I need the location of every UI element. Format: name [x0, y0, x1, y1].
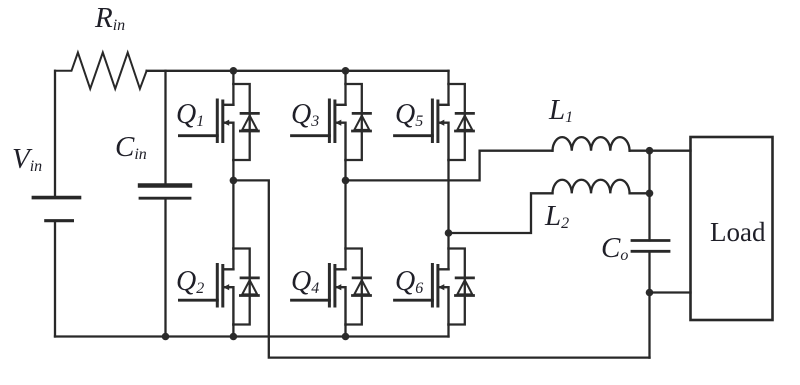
- wire leg1 bottom: [232, 325, 234, 337]
- capacitor Co bottom plate: [632, 250, 669, 253]
- inductor L1: [553, 137, 630, 151]
- wire Q1 gate lead: [179, 134, 217, 137]
- node leg2 top: [342, 67, 350, 75]
- wire leg3 middle: [447, 160, 449, 249]
- load box: [691, 137, 773, 320]
- resistor Rin: [55, 53, 147, 89]
- wire Cin top: [164, 71, 166, 184]
- wire phase2 to L1: [346, 151, 553, 181]
- capacitor Co top plate: [632, 239, 669, 242]
- wire Q5 gate lead: [395, 134, 433, 137]
- wire leg3 drain: [447, 71, 449, 84]
- wire Q4 gate lead: [292, 299, 330, 302]
- transistor Q5: [432, 84, 473, 160]
- junction leg2 bottom: [342, 333, 350, 341]
- node leg1 top: [230, 67, 238, 75]
- transistor Q2: [217, 249, 258, 325]
- wire Cin bottom: [164, 198, 166, 336]
- wire phase1 to load return: [233, 180, 649, 357]
- svg-text:Load: Load: [710, 217, 766, 247]
- transistor Q4: [329, 249, 370, 325]
- node leg1 phase: [230, 177, 238, 185]
- wire L1 to load: [630, 150, 691, 152]
- wire output node vertical: [648, 151, 650, 241]
- transistor Q3: [329, 84, 370, 160]
- battery Vin positive plate: [33, 196, 79, 200]
- wire Co bottom: [648, 251, 650, 357]
- node leg3 phase: [445, 229, 453, 237]
- wire left branch (Vin top): [54, 71, 56, 196]
- wire output bottom to load: [650, 291, 691, 293]
- inductor L2: [553, 180, 630, 194]
- capacitor Cin bottom plate: [140, 197, 190, 200]
- junction output bottom: [646, 289, 654, 297]
- transistor Q6: [432, 249, 473, 325]
- wire Q6 gate lead: [395, 299, 433, 302]
- transistor Q1: [217, 84, 258, 160]
- wire bottom rail: [55, 335, 449, 337]
- wire leg2 middle: [344, 160, 346, 249]
- wire top rail: [147, 70, 449, 72]
- capacitor Cin top plate: [140, 183, 190, 187]
- node leg2 phase: [342, 177, 350, 185]
- junction Cin-bottom-rail: [162, 333, 170, 341]
- junction leg1 bottom: [230, 333, 238, 341]
- battery Vin negative plate: [46, 219, 73, 222]
- wire leg1 middle: [232, 160, 234, 249]
- junction L2 output: [646, 190, 654, 198]
- wire phase3 to L2: [449, 193, 553, 233]
- wire leg2 drain: [344, 71, 346, 84]
- wire Vin bottom: [54, 221, 56, 337]
- wire leg3 bottom: [447, 325, 449, 337]
- wire leg2 bottom: [344, 325, 346, 337]
- wire Q2 gate lead: [179, 299, 217, 302]
- wire leg1 drain: [232, 71, 234, 84]
- junction L1 output: [646, 147, 654, 155]
- wire L2 to output node: [630, 192, 650, 194]
- wire Q3 gate lead: [292, 134, 330, 137]
